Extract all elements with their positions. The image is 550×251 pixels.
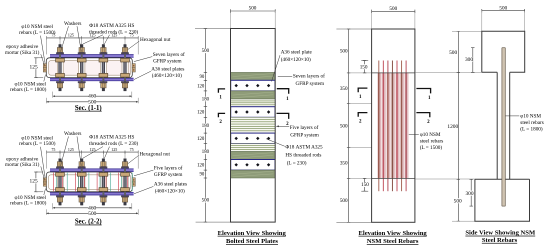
svg-text:180: 180 [202,124,210,129]
sec 1-1 threaded rod 2 with washers and hexagonal nuts [77,44,86,91]
side view: extension lines between panels [415,73,482,180]
svg-text:500: 500 [249,6,257,12]
svg-text:120: 120 [197,84,205,89]
sec 2-2 A36 steel plate (top) [50,169,134,172]
svg-text:500: 500 [88,211,96,217]
side view: NSM steel rebar (vertical) [502,48,505,206]
elevation view NSM rebars: left dimension column 500/350/500/350/500 [336,29,371,222]
side view: top block [482,31,525,72]
section cut marker 2 (right, elevation NSM) [416,113,430,125]
svg-text:Five layers of: Five layers of [290,124,319,131]
label threaded rods (sec 2-2) [83,135,139,159]
svg-text:GFRP system: GFRP system [153,59,182,65]
label phi10 NSM steel rebars L=1500 (sec 1-1) [19,24,56,63]
svg-text:(460×120×10): (460×120×10) [281,56,311,63]
elevation view NSM rebars: top width dimension 500 [372,6,415,29]
svg-text:mortar (Sika 31): mortar (Sika 31) [5,161,40,168]
label threaded rods (sec 1-1) [83,23,139,44]
sec 2-2 threaded rod 4 with washers and hexagonal nuts [121,159,130,206]
svg-text:125: 125 [68,33,74,38]
section 2-2 drawing [30,147,139,226]
GFRP layers band (striped) [231,117,276,133]
sec 2-2 concrete column cross-section [46,172,132,192]
svg-text:(L = 230): (L = 230) [287,160,307,167]
svg-text:Φ18 ASTM A325: Φ18 ASTM A325 [285,144,323,150]
side view: left dimension column 500/1200/500 [447,31,481,221]
section cut marker 1 (left, elevation NSM) [358,88,367,100]
svg-text:500: 500 [202,49,210,54]
GFRP wrap band (seven layers) [231,170,276,178]
A36 bolted steel plate band with rod heads [231,160,275,171]
caption Elevation View Showing Bolted Steel Plates [218,230,287,245]
label Hexagonal nut (sec 2-2) [128,151,171,163]
svg-text:Washers: Washers [64,21,81,27]
label A36 steel plates (sec 1-1) [134,67,185,80]
label Washers (sec 1-1) [61,21,82,52]
NSM steel rebars (elevation, middle striped block) [377,73,409,178]
svg-text:φ10 NSM: φ10 NSM [420,132,441,138]
elevation view bolted steel plates: column outline [231,29,276,223]
svg-text:epoxy adhesive: epoxy adhesive [6,44,39,50]
A36 bolted steel plate band with rod heads [231,80,275,91]
svg-text:GFRP system: GFRP system [296,81,325,87]
svg-text:HS threaded rods: HS threaded rods [285,153,321,159]
label phi10 NSM steel rebars L=1500 (elevation) [409,132,443,151]
label Five layers of GFRP system (sec 2-2) [134,164,183,178]
svg-text:Side View Showing NSM: Side View Showing NSM [465,230,536,237]
GFRP wrap band (seven layers) [231,91,276,99]
label A36 steel plate (elevation) [272,50,313,82]
svg-text:120: 120 [197,111,205,116]
svg-text:A36 steel plates: A36 steel plates [151,67,184,73]
svg-text:350: 350 [340,161,348,167]
elevation view bolted steel plates: top width dimension 500 [231,6,276,29]
side view: bottom block [475,179,530,221]
svg-text:300: 300 [465,191,473,197]
GFRP wrap boundary lines across column [372,73,415,178]
svg-text:90: 90 [200,173,205,178]
section cut marker 2 (left, elevation plates) [218,113,225,125]
NSM rebar end extensions (150 beyond wrap) [379,61,406,192]
sec 1-1 width dimension 500 [46,98,138,106]
svg-text:125: 125 [68,147,74,152]
svg-text:Five layers of: Five layers of [154,164,183,171]
sec 2-2 height dimension 125 [30,172,44,192]
svg-text:Seven layers of: Seven layers of [153,51,185,58]
side view: dimension 300 (bottom embedment) [465,179,473,206]
svg-text:(L = 1500): (L = 1500) [420,144,443,151]
svg-text:GFRP system: GFRP system [290,133,319,139]
svg-text:500: 500 [340,123,348,129]
label Seven layers of GFRP system (sec 1-1) [134,51,185,65]
label Hexagonal nut (sec 1-1) [128,37,171,49]
GFRP layers band (striped) [231,99,276,107]
svg-text:steel rebars: steel rebars [520,120,543,126]
GFRP wrap band (seven layers) [231,152,276,160]
label epoxy adhesive mortar (sec 1-1) [5,44,44,65]
svg-text:500: 500 [449,50,457,56]
svg-text:125: 125 [30,64,38,70]
section cut marker 1 (right, elevation NSM) [416,89,431,102]
svg-text:350: 350 [340,86,348,92]
svg-text:500: 500 [499,5,507,11]
label phi10 NSM steel rebars L=1800 (sec 2-2) [10,189,47,207]
caption Side View Showing NSM Steel Rebars [465,230,536,244]
svg-text:1200: 1200 [447,124,458,130]
svg-text:Elevation View Showing: Elevation View Showing [359,230,428,237]
A36 bolted steel plate band with rod heads [231,133,275,144]
label threaded rods (elevation) [266,139,323,167]
label phi10 NSM steel rebars L=1500 (sec 2-2) [19,136,56,178]
section cut marker 1 (right, elevation plates) [277,89,289,103]
dimension 150 (bottom rebar extension) [361,178,369,191]
svg-text:φ10 NSM: φ10 NSM [520,114,541,120]
sec 1-1 concrete column cross-section [46,58,132,78]
sec 1-1 threaded rod 1 with washers and hexagonal nuts [56,44,65,91]
dimension 150 (top rebar extension) [360,61,368,73]
sec 2-2 threaded rod 1 with washers and hexagonal nuts [56,159,65,206]
svg-text:120: 120 [197,164,205,169]
sec 1-1 height dimension 125 [30,58,44,78]
svg-text:500: 500 [389,6,397,12]
svg-text:Hexagonal nut: Hexagonal nut [140,151,171,157]
svg-text:GFRP system: GFRP system [154,172,183,178]
sec 2-2 threaded rod 3 with washers and hexagonal nuts [99,159,108,206]
label Washers (sec 2-2) [61,131,82,166]
svg-text:threaded rods (L = 230): threaded rods (L = 230) [89,28,138,35]
label Five layers of GFRP system (elevation) [276,124,319,139]
svg-text:(460×120×10): (460×120×10) [152,72,182,79]
svg-text:rebars (L = 1500): rebars (L = 1500) [19,140,56,147]
side view: column shaft [497,72,510,179]
side view: dimension 300 (top embedment) [465,48,475,73]
sec 2-2 threaded rod 2 with washers and hexagonal nuts [77,159,86,206]
svg-text:Bolted Steel Plates: Bolted Steel Plates [226,238,278,245]
svg-text:(460×120×10): (460×120×10) [155,188,185,195]
svg-text:180: 180 [202,97,210,102]
sec 1-1 NSM groove with epoxy mortar and rebar (right) [132,64,135,72]
svg-text:75: 75 [51,147,55,152]
GFRP wrap band (seven layers) [231,72,276,80]
sec 1-1 top dimension line 75/125/125/125/75 [47,33,139,55]
svg-text:NSM Steel Rebars: NSM Steel Rebars [367,238,419,245]
sec 2-2 width dimension 460 [53,203,132,211]
svg-text:180: 180 [202,150,210,155]
elevation view NSM rebars: column outline [372,29,415,222]
svg-text:125: 125 [30,179,38,185]
sec 2-2 A36 steel plate (bottom) [50,192,134,195]
svg-text:threaded rods (L = 230): threaded rods (L = 230) [89,140,138,147]
svg-text:150: 150 [360,64,368,70]
svg-text:Seven layers of: Seven layers of [293,72,325,79]
sec 2-2 NSM groove with epoxy mortar and rebar (right) [132,178,135,186]
svg-text:300: 300 [465,57,473,63]
sec 1-1 A36 steel plate (top) [50,55,134,58]
svg-text:150: 150 [361,182,369,188]
GFRP layers band (striped) [231,144,276,152]
sec 1-1 width dimension 460 [53,92,132,100]
label A36 steel plates (sec 2-2) [134,182,187,195]
svg-text:Hexagonal nut: Hexagonal nut [140,37,171,43]
svg-text:Elevation View Showing: Elevation View Showing [218,230,287,237]
label epoxy adhesive mortar (sec 2-2) [5,156,44,179]
elevation view bolted steel plates: left dimension column [195,29,231,223]
svg-text:Φ18 ASTM A325 HS: Φ18 ASTM A325 HS [89,135,134,141]
svg-text:rebars (L = 1800): rebars (L = 1800) [10,86,47,93]
svg-text:75: 75 [130,147,134,152]
sec 1-1 threaded rod 3 with washers and hexagonal nuts [99,44,108,91]
svg-text:90: 90 [200,75,205,80]
caption Elevation View Showing NSM Steel Rebars [359,230,428,245]
svg-text:Washers: Washers [64,131,81,137]
section cut marker 2 (right, elevation plates) [277,113,290,126]
section cut marker 1 (left, elevation plates) [218,89,225,101]
A36 bolted steel plate band with rod heads [231,107,275,118]
svg-text:125: 125 [111,147,117,152]
sec 1-1 A36 steel plate (bottom) [50,78,134,81]
svg-text:Φ18 ASTM A325 HS: Φ18 ASTM A325 HS [89,23,134,29]
sec 1-1 NSM groove with epoxy mortar and rebar (left) [43,64,46,72]
section 1-1 drawing [30,33,139,112]
svg-text:(L = 1800): (L = 1800) [520,126,543,133]
sec 2-2 NSM rebars (red) and GFRP layers (green) at rod planes [54,173,133,192]
label Seven layers of GFRP system (elevation) [278,72,325,87]
sec 2-2 GFRP wrap outlines in bays [49,175,131,190]
svg-text:rebars (L = 1800): rebars (L = 1800) [10,200,47,207]
svg-text:500: 500 [454,198,462,204]
sec 2-2 width dimension 500 [46,209,138,217]
sec 2-2 NSM groove with epoxy mortar and rebar (left) [43,178,46,186]
sec 1-1 GFRP wrap outlines in bays [49,61,131,76]
sec 2-2 top dimension line 75/125/125/125/75 [47,147,139,169]
svg-text:A36 steel plate: A36 steel plate [281,50,313,56]
svg-text:A36 steel plates: A36 steel plates [154,182,187,188]
svg-text:Sec. (1-1): Sec. (1-1) [75,105,102,112]
svg-text:steel rebars: steel rebars [420,138,443,144]
label phi10 NSM steel rebars L=1800 (side view) [506,114,544,133]
svg-text:500: 500 [340,198,348,204]
sec 1-1 threaded rod 4 with washers and hexagonal nuts [121,44,130,91]
side view: top width dimension 500 [482,5,525,31]
svg-text:120: 120 [197,137,205,142]
section cut marker 2 (left, elevation NSM) [358,113,367,125]
svg-text:mortar (Sika 31): mortar (Sika 31) [5,49,40,56]
svg-text:rebars (L = 1500): rebars (L = 1500) [19,29,56,36]
label phi10 NSM steel rebars L=1800 (sec 1-1) [10,75,47,94]
svg-text:Steel Rebars: Steel Rebars [482,237,518,244]
svg-text:500: 500 [340,49,348,55]
svg-text:500: 500 [202,199,210,204]
svg-text:Sec. (2-2): Sec. (2-2) [75,219,102,226]
